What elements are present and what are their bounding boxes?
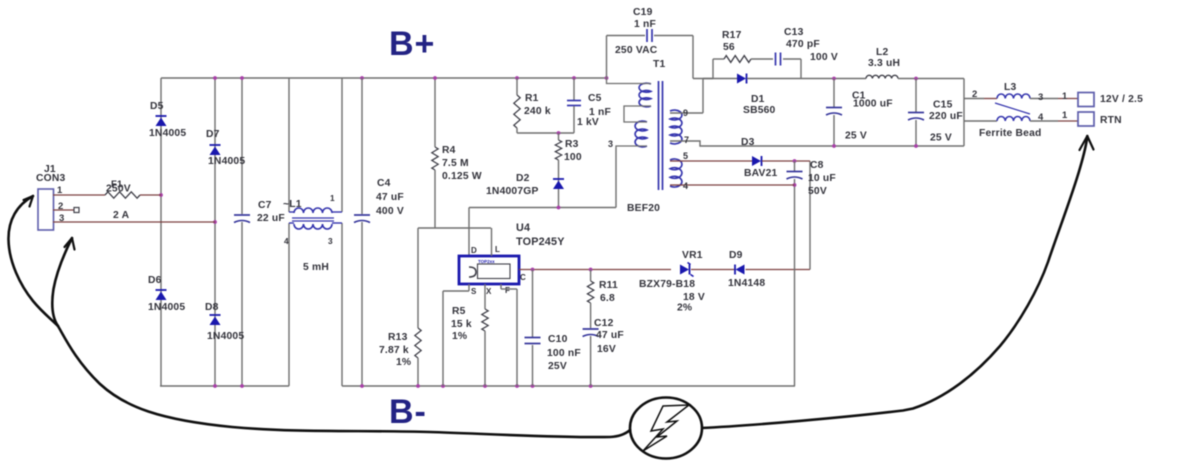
svg-text:1: 1 [330,193,335,203]
svg-text:25 V: 25 V [930,133,952,144]
svg-text:5: 5 [683,151,688,161]
svg-text:9: 9 [683,108,688,118]
svg-text:D: D [471,246,477,255]
svg-text:U4: U4 [516,222,530,234]
svg-text:220 uF: 220 uF [929,111,963,122]
svg-text:B-: B- [389,393,427,431]
svg-text:BZX79-B18: BZX79-B18 [639,279,695,290]
svg-text:1N4005: 1N4005 [208,156,245,167]
svg-text:D7: D7 [206,129,220,140]
svg-text:RTN: RTN [1100,115,1122,126]
svg-text:F: F [505,286,510,295]
svg-text:R1: R1 [525,93,539,104]
svg-text:D5: D5 [150,101,164,112]
svg-text:15 k: 15 k [451,319,472,330]
svg-text:C10: C10 [548,334,568,345]
svg-text:6.8: 6.8 [600,293,615,304]
svg-text:1N4007GP: 1N4007GP [486,186,539,197]
svg-text:100 V: 100 V [810,52,838,63]
svg-text:1%: 1% [452,331,467,342]
svg-text:~L1: ~L1 [283,199,302,210]
svg-text:1N4005: 1N4005 [149,128,186,139]
svg-text:25 V: 25 V [845,131,867,142]
svg-text:1N4005: 1N4005 [148,302,185,313]
svg-text:3.3 uH: 3.3 uH [868,58,900,69]
svg-text:C19: C19 [633,7,653,18]
svg-text:3: 3 [1038,92,1043,103]
svg-text:7.87 k: 7.87 k [379,345,409,356]
svg-text:1N4148: 1N4148 [728,278,765,289]
svg-text:1N4005: 1N4005 [207,331,244,342]
svg-text:C4: C4 [377,178,391,189]
svg-text:4: 4 [683,181,688,191]
svg-text:47 uF: 47 uF [596,330,624,341]
svg-text:50V: 50V [808,186,827,197]
svg-text:18 V: 18 V [683,292,705,303]
svg-text:B+: B+ [389,25,435,63]
svg-text:C15: C15 [933,100,953,111]
svg-text:100: 100 [564,152,582,163]
svg-text:22 uF: 22 uF [257,213,285,224]
svg-text:D9: D9 [729,250,743,261]
svg-text:400 V: 400 V [376,206,404,217]
svg-text:2%: 2% [677,303,692,314]
svg-text:2: 2 [972,89,977,100]
svg-text:1%: 1% [396,357,411,368]
svg-text:TOP245Y: TOP245Y [516,236,565,248]
svg-text:C8: C8 [810,160,824,171]
svg-text:100 nF: 100 nF [547,348,581,359]
svg-text:C: C [520,273,526,282]
svg-text:S: S [471,287,477,296]
svg-text:470 pF: 470 pF [786,39,820,50]
svg-text:BAV21: BAV21 [744,168,778,179]
svg-text:D6: D6 [148,275,162,286]
svg-text:3: 3 [608,139,613,149]
svg-text:7.5 M: 7.5 M [442,158,469,169]
svg-text:250 VAC: 250 VAC [615,45,658,56]
svg-text:16V: 16V [597,344,616,355]
svg-text:C12: C12 [594,318,614,329]
svg-text:D8: D8 [205,302,219,313]
svg-text:1: 1 [1062,91,1068,102]
svg-text:12V / 2.5: 12V / 2.5 [1100,94,1143,105]
svg-text:Ferrite Bead: Ferrite Bead [979,128,1042,139]
svg-text:R5: R5 [452,306,466,317]
svg-text:R17: R17 [722,30,742,41]
svg-text:240 k: 240 k [524,106,551,117]
svg-text:5 mH: 5 mH [303,262,329,273]
svg-text:TOP2xx: TOP2xx [478,259,495,264]
svg-text:X: X [486,287,492,296]
svg-text:0.125 W: 0.125 W [442,171,482,182]
svg-text:3: 3 [328,236,333,246]
svg-text:1: 1 [1062,110,1068,121]
svg-text:D2: D2 [516,173,530,184]
svg-text:25V: 25V [548,361,567,372]
svg-text:D1: D1 [751,94,765,105]
svg-text:C13: C13 [784,27,804,38]
svg-text:2 A: 2 A [113,210,130,221]
svg-text:R13: R13 [388,332,408,343]
svg-text:R3: R3 [565,139,579,150]
svg-text:47 uF: 47 uF [376,192,404,203]
svg-text:10 uF: 10 uF [808,173,836,184]
svg-text:L2: L2 [876,47,888,58]
svg-text:CON3: CON3 [36,173,65,184]
svg-text:BEF20: BEF20 [627,203,660,214]
svg-text:T1: T1 [653,59,665,70]
svg-text:VR1: VR1 [682,250,703,261]
svg-text:56: 56 [723,42,735,53]
svg-text:250V: 250V [106,184,131,195]
svg-text:4: 4 [1038,112,1044,123]
svg-text:L: L [495,245,500,254]
svg-text:1 nF: 1 nF [634,19,656,30]
svg-text:7: 7 [684,135,689,145]
svg-text:R11: R11 [599,280,618,291]
svg-text:C7: C7 [258,200,272,211]
svg-text:1 kV: 1 kV [577,117,599,128]
svg-text:1000 uF: 1000 uF [853,99,893,110]
svg-text:C5: C5 [588,93,602,104]
svg-text:L3: L3 [1004,82,1016,93]
svg-text:SB560: SB560 [743,105,776,116]
svg-text:R4: R4 [442,145,456,156]
svg-text:4: 4 [284,236,289,246]
